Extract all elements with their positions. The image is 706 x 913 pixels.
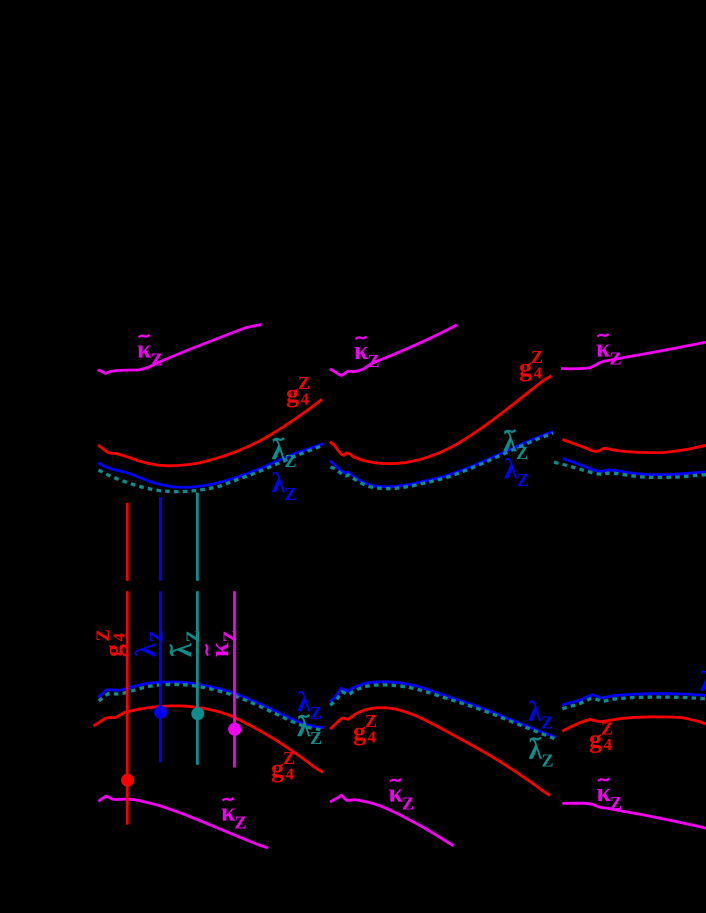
curve lambda panel3-bottom — [562, 694, 706, 705]
label kappa-tilde-Z panel3-top — [596, 334, 622, 369]
svg-text:Z: Z — [402, 794, 414, 814]
vertical limit line blue — [159, 497, 162, 581]
label lambda-Z panel2-bottom — [528, 696, 553, 732]
svg-text:Z: Z — [542, 751, 554, 771]
curve lambda-tilde panel2-bottom dashed — [330, 685, 556, 739]
svg-text:λ: λ — [700, 667, 706, 698]
svg-text:λ: λ — [504, 454, 518, 485]
curve lambda-tilde panel3-bottom dashed — [562, 697, 706, 709]
curve lambda panel2-top — [330, 432, 553, 487]
label g4-Z panel2-bottom — [353, 711, 377, 747]
marker dot blue — [154, 706, 167, 719]
label lambda-Z panel1-top — [272, 468, 297, 504]
curve g4 panel3-bottom — [562, 717, 706, 731]
curve kappa-tilde panel1-bottom — [98, 796, 268, 848]
svg-text:Z: Z — [610, 349, 622, 369]
label g4-Z panel1-bottom — [271, 748, 295, 784]
svg-text:λ: λ — [272, 468, 286, 499]
svg-text:λ: λ — [297, 712, 311, 743]
curve kappa-tilde panel3-top — [561, 342, 706, 369]
vertical limit line blue — [159, 591, 162, 762]
svg-text:4: 4 — [604, 735, 613, 754]
vertical limit line magenta — [233, 591, 236, 767]
label lambda-tilde-Z panel2-bottom — [529, 735, 554, 771]
vertical limit line red — [126, 503, 129, 581]
vertical limit line teal — [196, 591, 199, 765]
label lambda-tilde-Z panel1-top — [272, 435, 297, 471]
svg-text:λ: λ — [528, 696, 542, 727]
svg-text:Z: Z — [285, 451, 297, 471]
svg-text:Z: Z — [148, 630, 168, 642]
curve kappa-tilde panel1-top — [98, 325, 262, 374]
svg-text:Z: Z — [368, 351, 380, 371]
svg-text:λ: λ — [167, 643, 198, 657]
svg-text:κ: κ — [205, 642, 234, 657]
curve g4 panel3-top — [562, 440, 706, 453]
curve kappa-tilde panel2-top — [330, 325, 457, 376]
svg-text:λ: λ — [272, 435, 286, 466]
label lambda-Z panel2-top — [504, 454, 529, 490]
curve kappa-tilde panel2-bottom — [330, 795, 454, 846]
curve g4 panel1-bottom — [94, 706, 323, 772]
label lambda-tilde-Z panel2-top — [503, 427, 528, 463]
vertical limit line teal — [196, 493, 199, 581]
curve lambda-tilde panel1-top dashed — [99, 445, 325, 492]
svg-text:4: 4 — [286, 765, 295, 784]
svg-text:Z: Z — [221, 630, 241, 642]
svg-text:4: 4 — [534, 364, 543, 383]
svg-text:Z: Z — [517, 470, 529, 490]
svg-text:λ: λ — [131, 643, 162, 657]
curve lambda-tilde panel3-top dashed — [554, 462, 706, 477]
marker dot red — [121, 774, 134, 787]
curve kappa-tilde panel3-bottom — [562, 803, 706, 828]
marker dot teal — [191, 707, 204, 720]
label g4-Z panel1-top — [286, 373, 310, 409]
rotated label lambda-tilde-Z vertical — [167, 630, 204, 657]
vertical limit line red — [126, 591, 129, 824]
svg-text:Z: Z — [235, 813, 247, 833]
svg-text:Z: Z — [516, 443, 528, 463]
svg-text:4: 4 — [301, 390, 310, 409]
marker dot magenta — [228, 723, 241, 736]
svg-text:Z: Z — [310, 703, 322, 723]
curve lambda-tilde panel2-top dashed — [331, 433, 554, 489]
svg-text:Z: Z — [184, 630, 204, 642]
curve lambda panel2-bottom — [330, 682, 556, 738]
label lambda-Z panel3-bottom clipped — [700, 667, 706, 703]
label g4-Z panel2-top — [519, 347, 543, 383]
svg-text:4: 4 — [368, 728, 377, 747]
curve g4 panel1-top — [98, 399, 322, 466]
svg-text:Z: Z — [285, 484, 297, 504]
curve lambda panel1-bottom — [98, 682, 324, 728]
label kappa-tilde-Z panel2-top — [354, 336, 380, 371]
svg-text:λ: λ — [529, 735, 543, 766]
rotated label g4-Z vertical — [94, 629, 129, 657]
svg-text:Z: Z — [541, 712, 553, 732]
rotated label kappa-tilde-Z vertical — [205, 630, 241, 657]
curve lambda-tilde panel1-bottom dashed — [99, 684, 324, 730]
label kappa-tilde-Z panel1-top — [137, 334, 163, 369]
svg-text:g: g — [99, 644, 128, 657]
label kappa-tilde-Z panel3-bottom — [597, 778, 623, 813]
svg-text:Z: Z — [610, 793, 622, 813]
svg-text:Z: Z — [151, 349, 163, 369]
label lambda-Z panel1-bottom — [297, 687, 322, 723]
curve lambda panel1-top — [98, 444, 323, 488]
curve lambda panel3-top — [563, 459, 706, 475]
label kappa-tilde-Z panel1-bottom — [221, 798, 247, 833]
label g4-Z panel3-bottom — [589, 719, 613, 755]
label lambda-tilde-Z panel1-bottom — [297, 712, 322, 748]
rotated label lambda-Z vertical — [131, 630, 168, 657]
curve g4 panel2-bottom — [330, 708, 550, 796]
label kappa-tilde-Z panel2-bottom — [389, 779, 415, 814]
svg-text:4: 4 — [110, 633, 129, 642]
curve g4 panel2-top — [330, 376, 552, 464]
svg-text:Z: Z — [310, 728, 322, 748]
